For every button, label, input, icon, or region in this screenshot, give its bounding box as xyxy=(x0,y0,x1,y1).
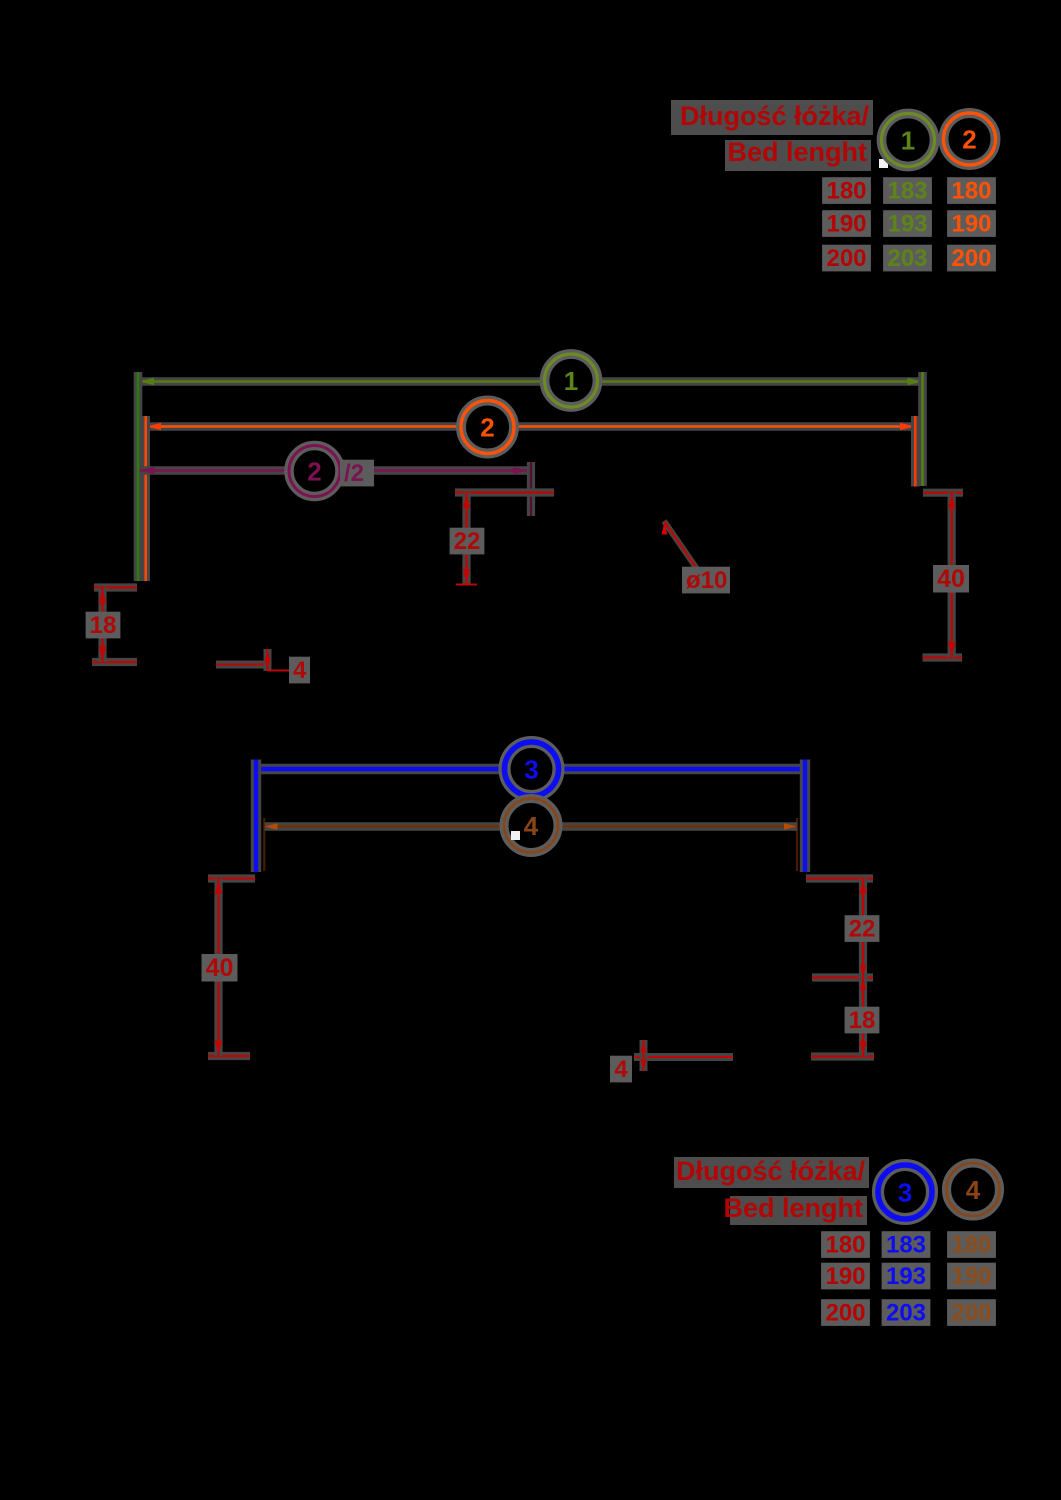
bottom table header halo xyxy=(674,1157,869,1188)
svg-text:203: 203 xyxy=(887,245,927,272)
svg-text:22: 22 xyxy=(454,528,481,555)
fig1 label 22 xyxy=(450,528,485,555)
circle 1 green (table) xyxy=(882,114,935,167)
white artifact block xyxy=(879,159,888,168)
fig1 dim 40 vertical xyxy=(948,493,956,658)
fig1 dim 40 right ticks xyxy=(923,489,963,497)
fig2 label 22 xyxy=(845,915,880,942)
fig1 orange extension right xyxy=(911,416,920,487)
fig1 green extension right xyxy=(918,372,927,486)
fig1 dim 22 vertical xyxy=(462,493,470,585)
fig1 label 4 xyxy=(289,657,310,684)
svg-text:Długość łóżka/: Długość łóżka/ xyxy=(676,1156,866,1186)
fig2 dim 22/18 vertical xyxy=(859,879,867,1057)
fig2 blue extension left xyxy=(251,760,261,873)
fig2 circle 3 blue xyxy=(505,742,559,796)
circle 2 orange (table) xyxy=(944,113,996,165)
svg-text:193: 193 xyxy=(887,211,927,238)
svg-text:3: 3 xyxy=(898,1178,912,1208)
circle 3 blue (table) xyxy=(878,1165,932,1219)
svg-text:/2: /2 xyxy=(344,460,364,487)
svg-text:2: 2 xyxy=(307,457,321,487)
fig1 label 40 xyxy=(933,565,969,593)
table row xyxy=(821,1299,870,1326)
svg-text:22: 22 xyxy=(849,916,876,943)
fig2 label 18 xyxy=(845,1007,880,1034)
fig2 dim 40 vertical xyxy=(214,879,222,1057)
fig2 brown dim line 4 xyxy=(265,822,503,830)
fig1 green extension left xyxy=(134,372,143,581)
fig1 circle 1 xyxy=(545,354,598,407)
table row xyxy=(822,210,871,237)
svg-text:2: 2 xyxy=(480,413,494,443)
fig2 dim 4 leader xyxy=(634,1053,733,1061)
table row xyxy=(822,177,871,204)
fig1 label 18 xyxy=(86,612,121,639)
svg-text:40: 40 xyxy=(206,954,234,982)
svg-text:190: 190 xyxy=(951,211,991,238)
fig1 label dia10 xyxy=(682,567,730,594)
svg-text:3: 3 xyxy=(524,755,538,785)
table row xyxy=(822,245,871,272)
svg-text:40: 40 xyxy=(937,565,965,593)
circle 4 brown (table) xyxy=(947,1163,1000,1216)
svg-text:193: 193 xyxy=(886,1263,926,1290)
svg-text:Długość łóżka/: Długość łóżka/ xyxy=(680,101,870,131)
svg-text:4: 4 xyxy=(966,1175,981,1205)
fig1 red reference line xyxy=(455,488,554,496)
svg-text:200: 200 xyxy=(951,245,991,272)
svg-text:180: 180 xyxy=(825,1232,865,1259)
svg-text:1: 1 xyxy=(901,126,915,156)
fig1 dim 18 left ticks xyxy=(94,583,137,591)
fig1 dim 18 vertical xyxy=(98,588,106,663)
fig1 circle 2 purple xyxy=(289,446,340,497)
svg-text:4: 4 xyxy=(293,657,307,684)
svg-text:ø10: ø10 xyxy=(686,567,727,594)
fig2 right ticks xyxy=(806,874,873,882)
svg-text:190: 190 xyxy=(826,211,866,238)
fig2 brown extension left xyxy=(263,818,265,871)
fig1 orange extension left xyxy=(141,416,150,581)
top table header halo xyxy=(671,100,873,135)
svg-text:Bed lenght: Bed lenght xyxy=(728,137,868,167)
table row xyxy=(821,1231,870,1258)
svg-text:180: 180 xyxy=(951,178,991,205)
fig2 label 4 xyxy=(610,1056,632,1083)
svg-text:18: 18 xyxy=(90,612,117,639)
svg-text:4: 4 xyxy=(614,1056,628,1083)
svg-text:18: 18 xyxy=(849,1007,876,1034)
svg-text:203: 203 xyxy=(886,1300,926,1327)
svg-text:1: 1 xyxy=(564,366,578,396)
fig2 blue extension right xyxy=(800,760,810,873)
svg-text:4: 4 xyxy=(524,811,539,841)
fig2 label 40 xyxy=(202,954,238,982)
fig2 circle 4 brown xyxy=(504,799,558,853)
fig2 dim 40 left ticks xyxy=(208,874,255,882)
fig1 leader dia10 xyxy=(664,521,697,569)
fig1 /2 label xyxy=(340,460,374,487)
svg-text:Bed lenght: Bed lenght xyxy=(724,1193,864,1223)
fig2 blue dim line 3 xyxy=(256,764,502,775)
svg-text:200: 200 xyxy=(826,245,866,272)
table row xyxy=(821,1263,870,1290)
svg-text:2: 2 xyxy=(962,125,976,155)
svg-text:183: 183 xyxy=(887,178,927,205)
fig1 circle 2 orange xyxy=(461,401,514,454)
svg-text:183: 183 xyxy=(886,1232,926,1259)
svg-text:190: 190 xyxy=(825,1263,865,1290)
white artifact block fig2 xyxy=(511,831,520,840)
svg-text:190: 190 xyxy=(951,1263,991,1290)
fig1 green dim line 1 xyxy=(139,377,544,386)
svg-text:200: 200 xyxy=(951,1300,991,1327)
fig1 centerline tick xyxy=(527,462,535,516)
fig1 purple dim line 2/2 xyxy=(140,466,288,474)
svg-text:180: 180 xyxy=(826,178,866,205)
fig1 orange dim line 2 xyxy=(146,422,459,431)
svg-text:180: 180 xyxy=(951,1232,991,1259)
fig2 brown extension right xyxy=(796,818,798,871)
fig1 dim 4 leader xyxy=(216,661,268,669)
svg-text:200: 200 xyxy=(825,1300,865,1327)
